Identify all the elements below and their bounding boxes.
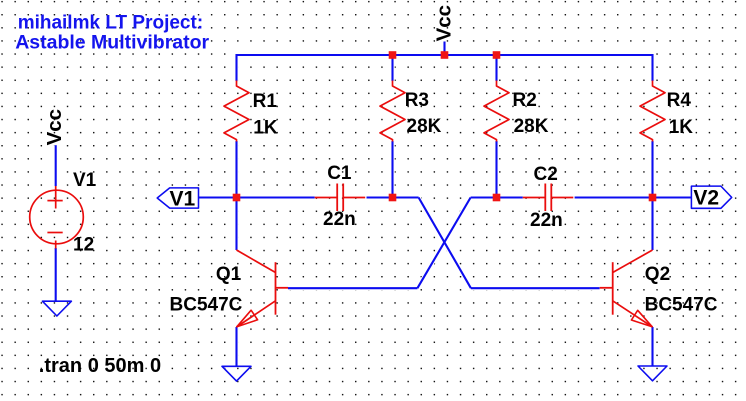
svg-text:R2: R2 <box>513 90 537 111</box>
svg-text:R3: R3 <box>405 90 429 111</box>
svg-text:C2: C2 <box>534 164 558 185</box>
svg-text:Vcc: Vcc <box>432 5 455 41</box>
svg-text:V1: V1 <box>73 170 97 191</box>
svg-text:BC547C: BC547C <box>170 295 243 316</box>
svg-text:Q1: Q1 <box>216 264 242 285</box>
svg-text:1K: 1K <box>253 118 278 139</box>
svg-text:mihailmk LT Project:: mihailmk LT Project: <box>18 12 203 33</box>
svg-text:28K: 28K <box>514 116 549 137</box>
svg-text:V2: V2 <box>693 187 719 210</box>
svg-text:Astable Multivibrator: Astable Multivibrator <box>15 32 209 54</box>
svg-text:28K: 28K <box>407 116 442 137</box>
svg-text:BC547C: BC547C <box>645 295 718 316</box>
svg-text:Q2: Q2 <box>645 264 670 285</box>
svg-text:R4: R4 <box>667 90 692 111</box>
svg-text:C1: C1 <box>327 163 352 184</box>
svg-text:12: 12 <box>73 235 94 256</box>
svg-text:.tran 0 50m 0: .tran 0 50m 0 <box>39 355 161 377</box>
svg-text:V1: V1 <box>170 187 196 210</box>
svg-text:Vcc: Vcc <box>43 109 66 145</box>
svg-text:R1: R1 <box>253 91 278 112</box>
svg-text:1K: 1K <box>669 117 694 138</box>
svg-text:22n: 22n <box>323 209 356 230</box>
svg-text:22n: 22n <box>530 210 563 231</box>
